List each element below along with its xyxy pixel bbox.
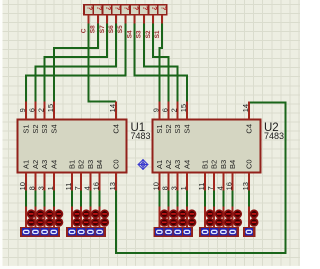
svg-text:A2: A2 bbox=[164, 160, 173, 169]
wire net S1: connector down, right at y=47.8, down to U2 pin S1 bbox=[159, 24, 162, 102]
svg-text:S2: S2 bbox=[145, 30, 152, 38]
svg-text:C0: C0 bbox=[245, 159, 254, 169]
svg-text:10: 10 bbox=[151, 182, 160, 190]
U2 pin stubs bbox=[159, 101, 249, 190]
svg-text:A3: A3 bbox=[40, 160, 49, 169]
svg-text:S3: S3 bbox=[136, 30, 143, 38]
wire net S4: connector down, right at y=75.7, down to U2 pin S4 bbox=[135, 24, 187, 102]
wire carry net: U2 pin C4 right, down right edge, along bottom, up to U1 pin C0 bbox=[116, 102, 286, 253]
svg-text:11: 11 bbox=[197, 183, 206, 191]
svg-text:S3: S3 bbox=[40, 124, 49, 133]
wire U2 pin A2 down to switch bbox=[168, 191, 170, 207]
svg-text:?: ? bbox=[159, 6, 166, 10]
wire net S3: connector down, right at y=66.4, down to U2 pin S3 bbox=[144, 24, 178, 102]
svg-text:1: 1 bbox=[46, 186, 55, 190]
svg-text:S2: S2 bbox=[164, 124, 173, 133]
wire U2 pin B2 down to switch bbox=[213, 191, 215, 207]
svg-text:16: 16 bbox=[92, 182, 101, 190]
wire U1 pin A3 down to switch bbox=[44, 191, 46, 207]
svg-text:S1: S1 bbox=[155, 124, 164, 133]
svg-text:2: 2 bbox=[170, 108, 179, 112]
single switch: U2 carry-in C0 bbox=[249, 207, 259, 228]
svg-text:B4: B4 bbox=[95, 160, 104, 169]
svg-text:A2: A2 bbox=[31, 160, 40, 169]
svg-text:C: C bbox=[80, 28, 87, 33]
svg-text:15: 15 bbox=[46, 104, 55, 112]
DIP switch block: U2 inputs B1-B4 bbox=[205, 207, 242, 228]
svg-text:13: 13 bbox=[108, 182, 117, 190]
wire U2 pin A1 down to switch bbox=[158, 191, 160, 207]
4-bit full adder U2 (7483) bbox=[153, 120, 261, 173]
wire U2 pin C0 down to switch bbox=[248, 191, 250, 207]
wire U1 pin B3 down to switch bbox=[89, 191, 91, 207]
wire U2 pin A3 down to switch bbox=[177, 191, 179, 207]
svg-text:S3: S3 bbox=[173, 124, 182, 133]
svg-text:B3: B3 bbox=[219, 160, 228, 169]
wire U2 pin B1 down to switch bbox=[204, 191, 206, 207]
svg-text:4: 4 bbox=[82, 186, 91, 190]
wire U2 pin B3 down to switch bbox=[222, 191, 224, 207]
svg-text:4: 4 bbox=[215, 186, 224, 190]
svg-text:A3: A3 bbox=[173, 160, 182, 169]
svg-text:S4: S4 bbox=[182, 124, 191, 133]
svg-text:B2: B2 bbox=[210, 160, 219, 169]
svg-text:1: 1 bbox=[179, 186, 188, 190]
DIP switch block: U1 inputs B1-B4 bbox=[72, 207, 109, 228]
DIP switch block: U1 inputs A1-A4 bbox=[26, 207, 63, 228]
svg-text:?: ? bbox=[86, 6, 93, 10]
svg-text:11: 11 bbox=[64, 183, 73, 191]
svg-text:S4: S4 bbox=[49, 124, 58, 133]
svg-text:C4: C4 bbox=[245, 124, 254, 134]
svg-text:S4: S4 bbox=[126, 30, 133, 38]
4-bit full adder U1 (7483) bbox=[18, 120, 127, 173]
svg-text:7: 7 bbox=[206, 186, 215, 190]
connector pin stubs bbox=[89, 15, 163, 24]
svg-text:S2: S2 bbox=[31, 124, 40, 133]
svg-text:?: ? bbox=[104, 6, 111, 10]
svg-text:13: 13 bbox=[241, 182, 250, 190]
svg-text:?: ? bbox=[150, 6, 157, 10]
sheet origin marker bbox=[138, 159, 149, 170]
wire U1 pin B2 down to switch bbox=[80, 191, 82, 207]
DIP switch block: U2 inputs A1-A4 bbox=[159, 207, 196, 228]
wire U1 pin A2 down to switch bbox=[34, 191, 36, 207]
svg-text:14: 14 bbox=[241, 104, 250, 112]
svg-text:9: 9 bbox=[18, 108, 27, 112]
svg-text:16: 16 bbox=[225, 182, 234, 190]
svg-text:A1: A1 bbox=[155, 160, 164, 169]
svg-text:S7: S7 bbox=[99, 25, 106, 33]
svg-text:14: 14 bbox=[108, 104, 117, 112]
svg-text:S1: S1 bbox=[22, 124, 31, 133]
svg-text:15: 15 bbox=[179, 104, 188, 112]
U1 pin stubs bbox=[26, 101, 116, 190]
svg-text:B3: B3 bbox=[86, 160, 95, 169]
wire net S5: connector down, left at y=75.7, down to U1 pin S1 bbox=[26, 24, 125, 102]
svg-text:6: 6 bbox=[27, 108, 36, 112]
svg-text:C4: C4 bbox=[112, 124, 121, 134]
svg-text:B1: B1 bbox=[201, 160, 210, 169]
svg-text:2: 2 bbox=[37, 108, 46, 112]
svg-text:7483: 7483 bbox=[264, 131, 284, 141]
svg-text:A4: A4 bbox=[49, 160, 58, 169]
svg-text:B4: B4 bbox=[228, 160, 237, 169]
wire U2 pin B4 down to switch bbox=[232, 191, 234, 207]
wire net S7: connector down, left at y=57.1, down to U1 pin S3 bbox=[45, 24, 107, 102]
svg-text:3: 3 bbox=[37, 186, 46, 190]
wire U1 pin A1 down to switch bbox=[25, 191, 27, 207]
svg-text:7: 7 bbox=[73, 186, 82, 190]
wire net C: connector pin C down to U1 pin C4 bbox=[89, 24, 117, 102]
wire U1 pin B4 down to switch bbox=[99, 191, 101, 207]
wire U1 pin B1 down to switch bbox=[71, 191, 73, 207]
svg-text:B1: B1 bbox=[68, 160, 77, 169]
svg-text:8: 8 bbox=[161, 186, 170, 190]
svg-text:A4: A4 bbox=[182, 160, 191, 169]
svg-text:10: 10 bbox=[18, 182, 27, 190]
wire net S8: connector down, left at y=47.8, down to U1 pin S4 bbox=[54, 24, 98, 102]
svg-text:S5: S5 bbox=[117, 25, 124, 33]
wire U1 pin A4 down to switch bbox=[53, 191, 55, 207]
svg-text:C0: C0 bbox=[112, 159, 121, 169]
svg-text:S1: S1 bbox=[154, 30, 161, 38]
svg-text:?: ? bbox=[113, 6, 120, 10]
svg-text:S6: S6 bbox=[108, 25, 115, 33]
svg-text:B2: B2 bbox=[77, 160, 86, 169]
wire net S2: connector down, right at y=57.1, down to U2 pin S2 bbox=[153, 24, 169, 102]
svg-text:3: 3 bbox=[170, 186, 179, 190]
wire U2 pin A4 down to switch bbox=[186, 191, 188, 207]
wire net S6: connector down, left at y=66.4, down to U1 pin S2 bbox=[35, 24, 116, 102]
svg-text:8: 8 bbox=[27, 186, 36, 190]
svg-text:9: 9 bbox=[151, 108, 160, 112]
svg-text:?: ? bbox=[95, 6, 102, 10]
logic probe strip: 9 indicators C,S8..S1 bbox=[84, 5, 167, 15]
svg-text:?: ? bbox=[123, 6, 130, 10]
svg-text:?: ? bbox=[132, 6, 139, 10]
svg-text:6: 6 bbox=[161, 108, 170, 112]
svg-text:A1: A1 bbox=[22, 160, 31, 169]
svg-text:S8: S8 bbox=[90, 25, 97, 33]
svg-text:7483: 7483 bbox=[131, 131, 151, 141]
svg-text:?: ? bbox=[141, 6, 148, 10]
